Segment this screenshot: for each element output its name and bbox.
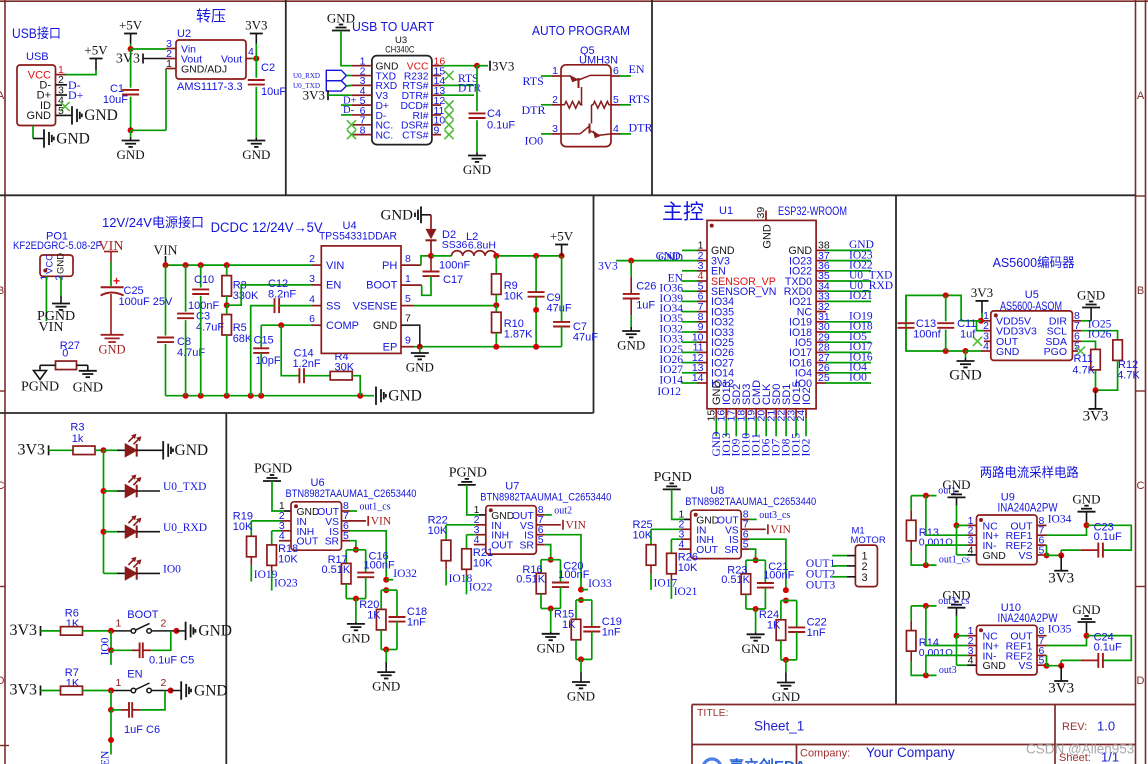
U5 pin 8 stub	[1072, 320, 1081, 322]
U1 pin 11 stub	[697, 351, 707, 353]
U5 pin 6 stub	[1072, 340, 1081, 342]
ground below R17	[355, 599, 357, 622]
resistor R23 parallel capacitor C21	[746, 559, 766, 561]
wire U1 pin27	[826, 362, 871, 364]
power flag 3V3 below U10	[1060, 666, 1062, 681]
U4 pin 8 stub	[401, 264, 421, 266]
wire U9 IN- to bottom rail	[967, 544, 976, 546]
svg-text:GND: GND	[73, 381, 103, 396]
no-connect X U3 pin 7	[347, 120, 356, 129]
U1 pin 26 stub	[816, 372, 826, 374]
wire U10 IN- to bottom rail	[967, 654, 976, 656]
U1 pin 2 stub	[697, 260, 707, 262]
U1 pin 7 stub	[697, 311, 707, 313]
svg-text:4: 4	[309, 294, 315, 306]
resistor R21 on U7 INH	[476, 534, 486, 536]
svg-text:3V3: 3V3	[245, 18, 267, 33]
USB connector J1 body	[17, 65, 56, 126]
resistor R16 parallel capacitor C20	[541, 559, 561, 561]
wire U0_RXD to U3 TXD	[346, 75, 351, 77]
svg-text:SS: SS	[326, 300, 341, 312]
svg-text:CH340C: CH340C	[385, 45, 414, 56]
U6 pin 4 stub	[279, 540, 291, 542]
svg-text:39: 39	[755, 207, 767, 219]
svg-text:EN: EN	[127, 669, 142, 681]
svg-text:VIN: VIN	[566, 519, 587, 531]
no-connect X U3 pin 8	[347, 130, 356, 139]
svg-text:4: 4	[248, 46, 254, 58]
svg-text:EN: EN	[629, 62, 645, 76]
Q5 pin 6 wire EN	[611, 75, 620, 77]
svg-text:GND: GND	[198, 623, 232, 640]
resistor R11	[1091, 349, 1101, 370]
svg-text:C: C	[0, 480, 5, 492]
svg-text:U2: U2	[177, 28, 191, 40]
U2 pin 4 stub	[246, 58, 252, 60]
svg-text:KF2EDGRC-5.08-2P: KF2EDGRC-5.08-2P	[13, 240, 102, 252]
wire U1 pin31	[826, 321, 871, 323]
svg-text:+5V: +5V	[119, 18, 143, 33]
resistor R25 on U8 IN	[681, 528, 691, 530]
USB pin 4 stub	[56, 104, 63, 106]
U8 pin 8 wire out3_cs	[741, 518, 750, 520]
svg-text:10uF: 10uF	[103, 94, 128, 106]
power flag 3V3 above C2	[250, 33, 263, 35]
wire R8 to U4 EN	[227, 285, 312, 305]
U3 pin 9 stub	[432, 134, 441, 136]
svg-text:4: 4	[968, 655, 974, 667]
resistor R18 on U6 INH	[281, 530, 291, 532]
ground below R20	[385, 650, 387, 663]
capacitor C3	[185, 265, 187, 312]
U3 pin 5 stub	[352, 104, 372, 106]
svg-text:4: 4	[613, 123, 619, 135]
IC U3 CH340C body	[372, 56, 432, 145]
ground at USB pin 5	[66, 114, 72, 116]
svg-text:out3_cs: out3_cs	[938, 596, 969, 607]
svg-text:10K: 10K	[278, 553, 298, 565]
capacitor C4	[476, 66, 478, 112]
svg-text:BOOT: BOOT	[127, 609, 158, 621]
svg-text:OUT: OUT	[491, 541, 513, 552]
wire U2 pin4 to 3V3 and C2	[252, 58, 257, 60]
U1 pin 39 stub top	[765, 211, 767, 221]
svg-text:PH: PH	[382, 260, 397, 272]
svg-text:3V3: 3V3	[1048, 681, 1074, 697]
svg-text:SR: SR	[724, 545, 738, 556]
wire U1 pin24 bottom	[805, 418, 807, 436]
net flag 3V3 right of U3	[489, 61, 491, 71]
U3 pin 16 stub	[432, 65, 441, 67]
port flag U0_RXD	[326, 70, 346, 80]
USB pin 3 stub	[56, 94, 68, 96]
svg-text:10K: 10K	[504, 291, 524, 303]
svg-text:A: A	[1137, 90, 1145, 102]
svg-text:R11: R11	[1074, 353, 1093, 365]
svg-text:10K: 10K	[473, 557, 493, 569]
svg-text:GND: GND	[762, 224, 774, 249]
svg-text:R3: R3	[70, 422, 84, 434]
resistor R26 on U8 INH	[681, 538, 691, 540]
svg-text:1.2nF: 1.2nF	[293, 358, 321, 370]
svg-text:PGND: PGND	[37, 309, 75, 324]
encoder U5 body	[991, 311, 1073, 361]
U1 pin 8 stub	[697, 321, 707, 323]
U4 pin 9 stub	[401, 346, 414, 348]
driver U7 body	[486, 506, 537, 554]
svg-text:TPS54331DDAR: TPS54331DDAR	[319, 231, 397, 243]
capacitor C2	[255, 59, 257, 78]
wire U1 pin9	[682, 331, 697, 333]
resistor R12	[1113, 340, 1123, 361]
power flag +5V at USB	[90, 58, 103, 60]
U1 pin 33 stub	[816, 300, 826, 302]
svg-text:0.1uF: 0.1uF	[487, 120, 515, 132]
Q5 pin 2 wire DTR	[541, 104, 552, 106]
wire U1 pin6	[682, 300, 697, 302]
svg-text:Company:: Company:	[800, 748, 850, 760]
svg-text:1: 1	[166, 58, 172, 70]
svg-text:IO21: IO21	[674, 586, 698, 598]
svg-text:U1: U1	[719, 205, 733, 217]
no-connect X on U5 pin3	[973, 337, 982, 346]
svg-text:RTS: RTS	[629, 92, 650, 106]
svg-text:GND: GND	[242, 147, 270, 162]
svg-text:SR: SR	[325, 537, 339, 548]
capacitor C13	[905, 295, 907, 321]
ground PGND below PO1	[52, 303, 70, 305]
svg-text:100nF: 100nF	[188, 300, 219, 312]
power flag 3V3 below R11	[1095, 390, 1097, 409]
ground at LED D3	[162, 441, 164, 459]
svg-text:C4: C4	[487, 108, 501, 120]
LED D3 power	[104, 449, 118, 451]
svg-text:1.87K: 1.87K	[504, 329, 533, 341]
svg-text:U0_RXD: U0_RXD	[163, 522, 207, 534]
resistor R8	[226, 265, 228, 276]
svg-text:1uF C6: 1uF C6	[124, 724, 160, 736]
U1 pin 31 stub	[816, 321, 826, 323]
wire U1 pin36	[826, 270, 871, 272]
EasyEDA logo (clipped at bottom)	[703, 757, 806, 764]
svg-text:0.1uF: 0.1uF	[1094, 642, 1122, 654]
svg-text:VS: VS	[1018, 660, 1032, 672]
svg-text:8.2nF: 8.2nF	[268, 289, 296, 301]
ground below C25 (red)	[101, 334, 124, 336]
ground below R16	[550, 609, 552, 632]
wire PO1 pin1 to VIN	[45, 276, 47, 321]
U1 pin 9 stub	[697, 331, 707, 333]
wire U1 pin34	[826, 290, 871, 292]
capacitor C7	[561, 256, 563, 322]
wire U3 VCC to 3V3 and C4	[441, 65, 477, 67]
wire PGND to U8 pin1	[672, 489, 684, 519]
ground GND below R27	[79, 370, 97, 372]
svg-text:USB接口: USB接口	[12, 25, 61, 41]
wire R7 to switch	[83, 690, 112, 692]
wire U0_TXD to U3 RXD	[346, 84, 351, 87]
U1 pin 34 stub	[816, 290, 826, 292]
wire U9 IN+ to top rail	[967, 534, 976, 536]
svg-text:Your Company: Your Company	[866, 745, 955, 760]
U8 pin 4 stub	[679, 548, 691, 550]
svg-text:IO33: IO33	[588, 578, 612, 590]
U3 pin 3 stub	[352, 84, 372, 86]
connector M1 MOTOR body	[855, 545, 877, 587]
DCDC top rail VIN	[166, 264, 312, 266]
svg-text:GND: GND	[1072, 602, 1100, 617]
svg-text:GND: GND	[327, 10, 355, 25]
LED D4 TXD	[104, 490, 118, 492]
svg-text:1K: 1K	[767, 620, 781, 632]
svg-text:47uF: 47uF	[547, 303, 572, 315]
svg-text:1K: 1K	[562, 619, 576, 631]
svg-text:1: 1	[116, 677, 122, 689]
no-connect X on USB pin 4	[60, 102, 69, 111]
svg-text:USB TO UART: USB TO UART	[352, 19, 434, 34]
wire U1 pin3	[682, 270, 697, 272]
svg-text:GND: GND	[175, 442, 209, 459]
svg-text:1K: 1K	[367, 609, 381, 621]
svg-text:2: 2	[161, 677, 167, 689]
svg-text:1: 1	[116, 617, 122, 629]
svg-text:GND: GND	[27, 110, 52, 122]
power flag 3V3 below U9	[1060, 555, 1062, 570]
U7 pin 5 wire to snubber	[536, 544, 545, 546]
wire U1 pin28	[826, 351, 871, 353]
junction R11/R12	[1093, 387, 1099, 393]
U9 pin 8 stub OUT	[1037, 524, 1047, 526]
svg-text:6.8uH: 6.8uH	[468, 240, 496, 252]
wire L2 to +5V	[496, 255, 561, 257]
svg-text:B: B	[0, 285, 4, 297]
resistor R5	[226, 305, 228, 314]
U3 pin 12 stub	[432, 104, 441, 106]
U6 pin 5 wire to snubber	[342, 540, 351, 542]
svg-text:3V3: 3V3	[9, 682, 37, 699]
svg-text:1: 1	[405, 273, 411, 285]
svg-text:GND: GND	[372, 679, 400, 694]
shunt resistor R14	[911, 605, 936, 607]
resistor R22 on U7 IN	[476, 524, 486, 526]
svg-text:3V3: 3V3	[1083, 409, 1109, 425]
svg-text:C: C	[1137, 480, 1145, 492]
R24 C22 snubber pair	[783, 598, 789, 604]
svg-text:3V3: 3V3	[598, 261, 618, 273]
wire PGND to U7 pin1	[467, 485, 479, 515]
wire +5V to U2 Vin and C1	[130, 44, 132, 50]
svg-text:3V3: 3V3	[303, 88, 325, 103]
wire U4 VSENSE to R9/R10	[414, 305, 496, 307]
svg-text:3: 3	[862, 572, 868, 584]
svg-text:BTN8982TAAUMA1_C2653440: BTN8982TAAUMA1_C2653440	[480, 492, 611, 504]
U3 pin 13 stub	[432, 94, 441, 96]
wire U1 pin38	[826, 249, 871, 251]
svg-text:C10: C10	[194, 274, 214, 286]
svg-text:3V3: 3V3	[9, 622, 37, 639]
svg-text:GND: GND	[537, 640, 565, 655]
svg-text:1K: 1K	[66, 678, 80, 690]
svg-text:VIN: VIN	[770, 524, 791, 536]
wire U1 pin19 bottom	[755, 418, 757, 436]
wire bottom rail to U5 pin4	[966, 350, 981, 352]
svg-text:C26: C26	[636, 281, 656, 293]
svg-text:out1_cs: out1_cs	[939, 555, 970, 566]
wire U1 pin35	[826, 280, 871, 282]
wire U4 COMP	[261, 324, 311, 326]
U3 pin 7 stub	[352, 124, 372, 126]
no-connect X U3 pin 12	[444, 101, 453, 110]
U10 pin 8 stub OUT	[1037, 635, 1047, 637]
section divider lines	[0, 194, 1136, 196]
svg-text:4.7K: 4.7K	[1117, 370, 1140, 382]
svg-text:IO21: IO21	[849, 290, 873, 302]
svg-text:3V3: 3V3	[1048, 570, 1074, 586]
svg-text:GND: GND	[772, 689, 800, 704]
svg-text:VIN: VIN	[371, 515, 392, 527]
U1 pin 22 stub bottom	[785, 409, 787, 418]
Q5 pin 4 wire DTR	[611, 133, 620, 135]
svg-text:100nF: 100nF	[439, 260, 470, 272]
svg-text:VCC: VCC	[45, 254, 56, 274]
ground below C1	[130, 130, 132, 137]
svg-text:REV:: REV:	[1062, 721, 1087, 733]
power flag +5V above C1	[124, 33, 137, 35]
U3 pin 14 stub	[432, 84, 441, 86]
svg-text:IO23: IO23	[274, 578, 298, 590]
MCU U1 body	[707, 220, 816, 408]
ground at BOOT	[173, 628, 179, 634]
ground below C2	[255, 138, 257, 141]
current sense amp U10 body	[977, 625, 1038, 675]
U1 pin 38 stub	[816, 249, 826, 251]
svg-text:3V3: 3V3	[17, 442, 45, 459]
U5 pin 3 stub	[984, 340, 991, 342]
wire U1 pin21 bottom	[775, 418, 777, 436]
svg-text:IO2: IO2	[801, 387, 813, 405]
svg-text:0.1uF C5: 0.1uF C5	[149, 655, 194, 667]
wire U1 pin15 bottom	[715, 418, 717, 436]
ground below U4 EP	[419, 347, 421, 352]
svg-text:10uF: 10uF	[261, 86, 286, 98]
U4 EP rail	[414, 346, 562, 348]
wire U5 pin2 to 3V3 node	[977, 321, 985, 331]
svg-text:IO14: IO14	[659, 374, 683, 386]
svg-text:U5: U5	[1025, 289, 1039, 301]
ground below U5 GND rail	[965, 351, 967, 358]
svg-text:12V/24V电源接口: 12V/24V电源接口	[102, 215, 204, 230]
svg-text:2: 2	[552, 94, 558, 106]
svg-text:1K: 1K	[66, 618, 80, 630]
wire U9 VS and REF2	[1037, 554, 1043, 556]
wire U4 PH up to switch node	[421, 256, 431, 265]
svg-text:IO12: IO12	[657, 386, 681, 398]
resistor R9	[495, 256, 497, 274]
wire U1 pin18 bottom	[745, 418, 747, 436]
svg-text:AMS1117-3.3: AMS1117-3.3	[177, 81, 243, 93]
sheet frame border	[0, 0, 1148, 2]
svg-text:OUT3: OUT3	[806, 579, 836, 591]
junction C1 bottom	[128, 127, 134, 133]
svg-text:1nF: 1nF	[407, 617, 426, 629]
svg-text:5: 5	[58, 105, 64, 117]
svg-text:C17: C17	[443, 274, 463, 286]
svg-text:3V3: 3V3	[116, 52, 140, 67]
svg-text:1: 1	[552, 65, 558, 77]
U3 pin 1 stub	[352, 65, 372, 67]
U4 pin 2 stub	[311, 264, 321, 266]
wire U1 pin4	[682, 280, 697, 282]
svg-text:out2: out2	[554, 505, 572, 516]
wire U1 pin23 bottom	[795, 418, 797, 436]
svg-text:EP: EP	[383, 342, 398, 354]
svg-text:B: B	[1137, 285, 1144, 297]
svg-text:1uF: 1uF	[636, 299, 655, 311]
capacitor C9	[535, 256, 537, 292]
U1 pin 18 stub bottom	[745, 409, 747, 418]
svg-text:GND: GND	[56, 130, 90, 147]
svg-text:GND: GND	[1077, 287, 1105, 302]
capacitor C26	[630, 261, 632, 277]
svg-text:GND: GND	[406, 360, 434, 375]
wire PGND to U6 pin1	[272, 481, 284, 511]
wire U10 VS and REF2	[1037, 664, 1043, 666]
svg-text:D: D	[1137, 675, 1145, 687]
ground below R15	[580, 659, 582, 672]
capacitor C10	[200, 265, 202, 287]
svg-text:GND: GND	[194, 682, 228, 699]
svg-text:VS: VS	[1018, 550, 1032, 562]
svg-text:9: 9	[405, 335, 411, 347]
U2 pin 2 stub	[166, 58, 176, 60]
svg-text:PGND: PGND	[21, 380, 59, 395]
svg-text:0.51K: 0.51K	[322, 564, 351, 576]
U3 pin 2 stub	[352, 75, 372, 77]
R20 C18 snubber pair	[383, 587, 389, 593]
svg-text:COMP: COMP	[326, 320, 359, 332]
U3 pin 11 stub	[432, 114, 441, 116]
svg-text:1uf: 1uf	[960, 329, 976, 341]
svg-text:DCDC 12/24V→5V: DCDC 12/24V→5V	[211, 220, 323, 235]
U2 pin 3 stub	[166, 48, 176, 50]
svg-text:3: 3	[309, 273, 315, 285]
shunt resistor R13	[911, 495, 936, 497]
svg-text:0.001Ω: 0.001Ω	[919, 647, 953, 659]
U1 pin 10 stub	[697, 341, 707, 343]
U1 pin 12 stub	[697, 362, 707, 364]
U4 pin 7 stub	[401, 324, 414, 326]
svg-text:EN: EN	[100, 750, 112, 764]
svg-text:+: +	[113, 274, 120, 288]
svg-text:out3: out3	[939, 665, 957, 676]
U7 pin 8 wire out2	[536, 514, 545, 516]
svg-text:IO2: IO2	[801, 438, 813, 456]
U6 pin 6 wire to IS node	[342, 530, 351, 532]
svg-text:0.1uF: 0.1uF	[1094, 531, 1122, 543]
no-connect X U3 pin 9	[444, 130, 453, 139]
net label DTR wire (U3 pin13)	[441, 94, 474, 96]
svg-text:IO0: IO0	[163, 564, 181, 576]
svg-text:DTR: DTR	[522, 103, 546, 117]
U1 pin 36 stub	[816, 270, 826, 272]
U1 pin 25 stub	[816, 382, 826, 384]
svg-text:10K: 10K	[678, 562, 698, 574]
U1 pin 13 stub	[697, 372, 707, 374]
wire R3 to LEDs	[95, 449, 104, 451]
wire EN down	[110, 710, 112, 755]
net flag VIN at U7 pin7	[536, 524, 561, 526]
svg-text:OUT: OUT	[696, 545, 718, 556]
